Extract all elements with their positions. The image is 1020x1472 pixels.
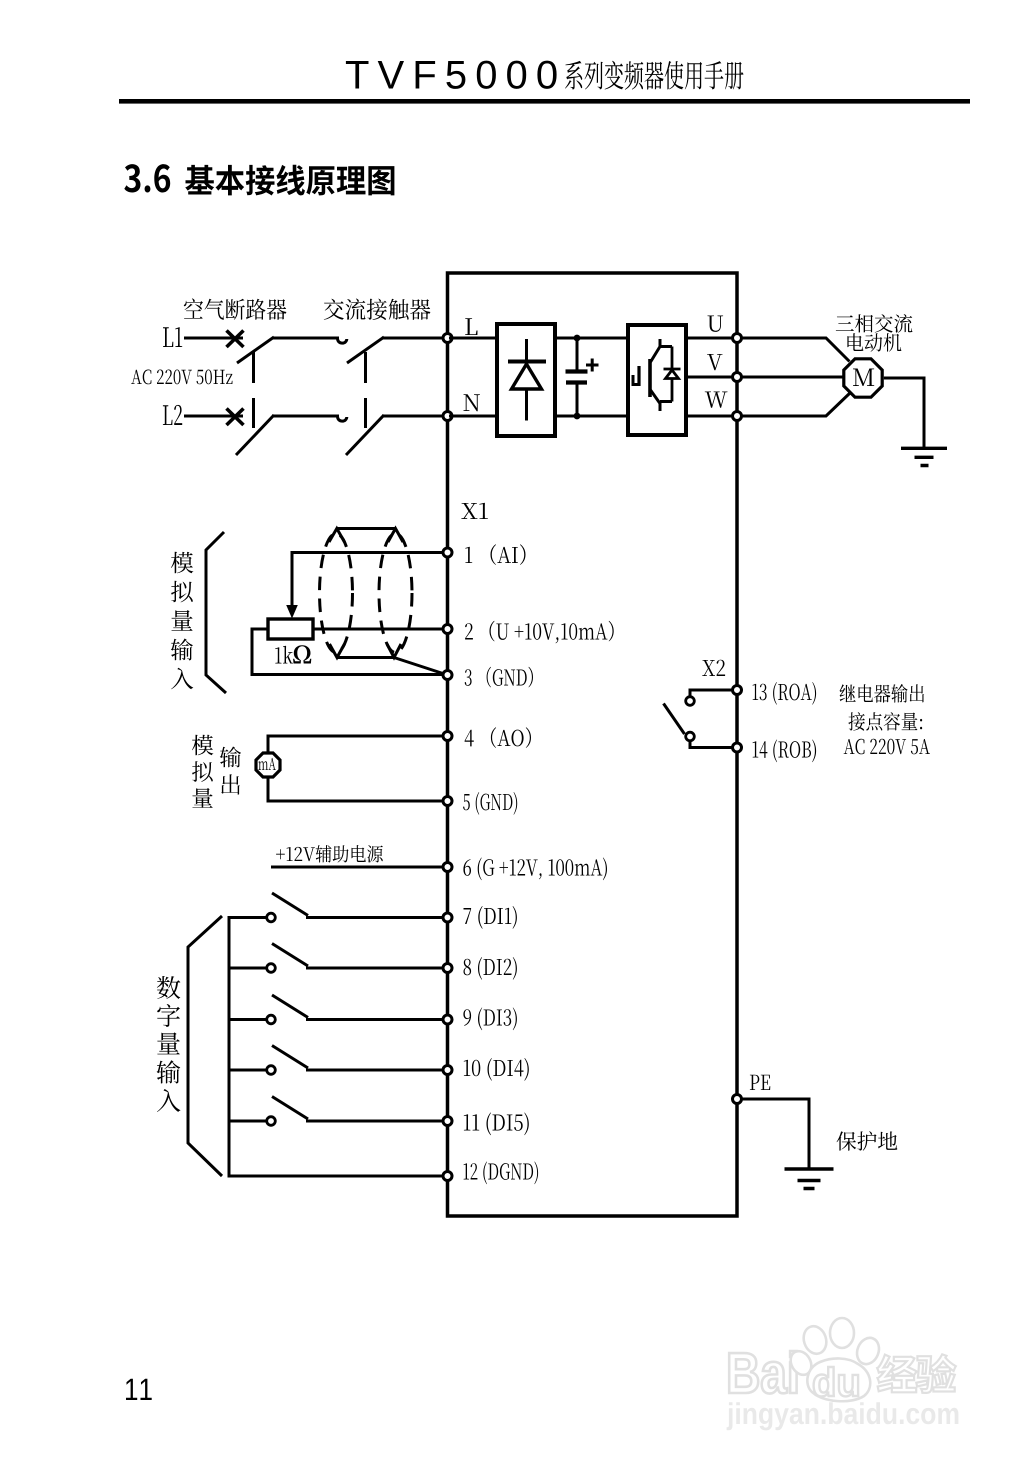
label X2 xyxy=(702,660,725,676)
contactor KM pole2 fixed contact arc xyxy=(338,417,347,421)
terminal 9 label xyxy=(463,1008,517,1031)
label AC 220V 5A xyxy=(844,739,930,755)
IGBT inverter box xyxy=(628,325,686,435)
switch DI2 wire from bus xyxy=(229,967,267,970)
label moniliang shuru (analog input) vertical xyxy=(171,552,194,690)
wire terminal 14 ROB xyxy=(690,741,733,748)
wire terminal 6 +12V xyxy=(271,866,443,869)
terminal 5 label xyxy=(463,792,517,815)
watermark jingyan.baidu.com xyxy=(727,1402,959,1430)
switch DI1 wire from bus xyxy=(229,916,267,919)
terminal 13 circle xyxy=(733,686,742,695)
label L1 xyxy=(163,327,182,347)
terminal 7 label xyxy=(464,906,517,929)
wire DC bus bottom xyxy=(555,415,628,418)
capacitor C1 bottom lead xyxy=(576,382,579,416)
wire DC bus top xyxy=(555,337,628,340)
wire to terminal 9 xyxy=(306,1018,443,1021)
terminal L circle xyxy=(443,334,452,343)
wire terminal 4 AO xyxy=(268,736,443,753)
wire U to motor xyxy=(742,338,850,362)
switch DI4 contact circle xyxy=(267,1066,276,1075)
breaker QF pole1 contact X xyxy=(227,331,244,348)
terminal 11 circle xyxy=(443,1117,452,1126)
switch DI2 blade xyxy=(272,944,308,967)
breaker QF pole2 blade xyxy=(236,415,274,455)
terminal U circle xyxy=(733,334,742,343)
rectifier diode triangle xyxy=(512,364,542,389)
capacitor C1 plate bottom xyxy=(566,380,587,384)
section heading chinese xyxy=(185,165,394,196)
switch DI1 contact circle xyxy=(267,913,276,922)
page number 11 xyxy=(126,1379,152,1400)
rectifier bridge box xyxy=(497,324,555,436)
wire N to rectifier xyxy=(449,415,497,418)
wire L2 input xyxy=(184,415,243,418)
breaker linkage lower xyxy=(252,398,255,428)
wire terminal 1 AI xyxy=(292,553,443,607)
capacitor C1 plate top xyxy=(566,369,588,373)
capacitor plus sign xyxy=(586,359,599,372)
terminal 3 label xyxy=(465,667,533,688)
motor ground symbol xyxy=(901,448,947,465)
contactor KM pole1 fixed contact arc xyxy=(338,339,347,343)
wire to terminal 10 xyxy=(306,1069,443,1072)
contactor KM pole1 blade xyxy=(347,337,384,363)
contactor KM pole2 blade xyxy=(346,415,384,455)
label contact rating xyxy=(848,712,922,731)
label shuchu (output) vertical xyxy=(220,747,241,795)
terminal 12 label xyxy=(464,1162,538,1185)
terminal 7 circle xyxy=(443,913,452,922)
switch DI5 contact circle xyxy=(267,1117,276,1126)
rectifier diode cathode bar xyxy=(508,360,546,364)
watermark du text xyxy=(814,1367,859,1396)
analog input bracket xyxy=(206,532,226,693)
label L2 xyxy=(163,405,182,425)
switch DI5 blade xyxy=(272,1097,308,1120)
terminal 2 circle xyxy=(443,625,452,634)
relay contact lower circle xyxy=(686,732,695,741)
wire terminal 13 ROA xyxy=(690,690,733,696)
label L xyxy=(465,318,477,335)
wire L1 to terminal L xyxy=(382,337,443,340)
label diandongji (motor) xyxy=(847,333,901,352)
label U xyxy=(708,316,724,332)
potentiometer 1k body xyxy=(268,619,313,639)
breaker QF pole1 blade xyxy=(237,337,274,363)
switch DI3 contact circle xyxy=(267,1015,276,1024)
IGBT gate bar xyxy=(637,366,640,386)
wire to terminal 7 xyxy=(306,916,443,919)
wire to terminal 8 xyxy=(306,967,443,970)
terminal V circle xyxy=(733,373,742,382)
label V xyxy=(707,354,722,370)
label AC 220V 50Hz xyxy=(131,370,232,385)
terminal 3 circle xyxy=(443,671,452,680)
terminal 11 label xyxy=(464,1113,529,1136)
terminal 14 circle xyxy=(733,743,742,752)
label sanxiang jiaoliu (3-phase AC) xyxy=(836,314,913,333)
potentiometer wiper arrow xyxy=(286,605,298,619)
contactor linkage upper xyxy=(364,352,367,383)
switch DI3 blade xyxy=(272,995,308,1018)
label PE xyxy=(750,1075,770,1090)
motor M circle xyxy=(844,359,882,397)
watermark paw toes xyxy=(787,1318,883,1401)
wire mA meter to terminal 5 xyxy=(268,778,443,802)
label 1k xyxy=(275,646,293,664)
wire L1 to contactor xyxy=(272,337,339,340)
PE ground symbol xyxy=(785,1169,834,1189)
terminal 4 label xyxy=(465,727,531,748)
terminal 1 circle xyxy=(443,548,452,557)
terminal N circle xyxy=(443,412,452,421)
wire W out xyxy=(686,415,733,418)
IGBT emitter xyxy=(651,390,673,411)
label W xyxy=(705,392,728,408)
header rule xyxy=(119,99,970,104)
terminal 5 circle xyxy=(443,797,452,806)
switch DI1 blade xyxy=(272,893,308,916)
wire to terminal 11 xyxy=(306,1120,443,1123)
IGBT freewheel diode xyxy=(664,347,681,402)
header title chinese xyxy=(565,61,744,90)
switch DI3 wire from bus xyxy=(229,1018,267,1021)
terminal 14 label xyxy=(753,740,817,763)
shield ellipse left xyxy=(320,534,353,653)
switch DI5 wire from bus xyxy=(229,1120,267,1123)
terminal 9 circle xyxy=(443,1015,452,1024)
label relay output xyxy=(840,684,925,703)
label ohm symbol xyxy=(293,645,311,663)
terminal 8 label xyxy=(464,957,517,980)
contactor linkage lower xyxy=(364,398,367,428)
wire U out xyxy=(686,337,733,340)
wire W to motor xyxy=(742,393,851,417)
label mA xyxy=(258,758,276,770)
motor letter M xyxy=(853,369,874,387)
label baohudi (protective earth) xyxy=(837,1131,898,1151)
digital input bracket xyxy=(188,916,222,1176)
watermark jingyan chinese xyxy=(877,1354,956,1393)
terminal W circle xyxy=(733,412,742,421)
terminal 12 circle xyxy=(443,1172,452,1181)
label jiaoliu jiechuqi (AC contactor) xyxy=(324,299,431,320)
shield top carets and jacket line xyxy=(329,529,403,543)
IGBT main bar xyxy=(648,359,652,397)
terminal 10 label xyxy=(464,1058,529,1081)
terminal 4 circle xyxy=(443,732,452,741)
terminal 6 label xyxy=(463,858,607,881)
watermark Baidu text xyxy=(729,1351,796,1394)
capacitor C1 top lead xyxy=(576,338,579,371)
junction dot bus top xyxy=(574,335,581,342)
wire L to rectifier xyxy=(449,337,497,340)
shield ellipse right xyxy=(379,534,412,653)
relay blade xyxy=(664,704,685,735)
terminal 8 circle xyxy=(443,964,452,973)
label shuziliang shuru (digital input) vertical xyxy=(157,976,181,1112)
wire V out xyxy=(686,376,733,379)
mA meter circle xyxy=(256,753,280,777)
breaker linkage upper xyxy=(252,352,255,383)
wire terminal 2 from potentiometer xyxy=(313,628,443,631)
IGBT collector lead xyxy=(651,339,673,362)
terminal 2 label xyxy=(465,621,614,644)
wire L1 input xyxy=(184,337,243,340)
terminal 6 circle xyxy=(443,863,452,872)
breaker QF pole2 contact X xyxy=(227,409,244,426)
shield drain wire to terminal 3 xyxy=(330,644,447,675)
junction dot bus bottom xyxy=(574,413,581,420)
rectifier diode anode lead xyxy=(525,389,528,421)
inverter main box xyxy=(448,273,738,1216)
wire L2 to terminal N xyxy=(382,415,443,418)
terminal PE circle xyxy=(733,1095,742,1104)
switch DI4 blade xyxy=(272,1046,308,1069)
label X1 xyxy=(461,503,488,519)
label +12V auxiliary supply xyxy=(276,845,383,863)
wire L2 to contactor xyxy=(272,415,339,418)
terminal 1 label xyxy=(465,544,525,565)
header title TVF5000 xyxy=(346,61,557,89)
wire potentiometer left to terminal 3 xyxy=(252,629,443,675)
switch DI4 wire from bus xyxy=(229,1069,267,1072)
IGBT gate lead xyxy=(633,375,640,385)
wire motor to ground xyxy=(884,378,924,447)
wire V to motor xyxy=(742,376,844,379)
terminal 10 circle xyxy=(443,1066,452,1075)
wire terminal 12 DGND xyxy=(229,1175,443,1178)
label N xyxy=(464,394,480,411)
label moniliang (analog) vertical xyxy=(192,735,214,808)
label kongqi duanluqi (air breaker) xyxy=(184,298,287,320)
section heading 3.6 xyxy=(124,164,170,192)
rectifier diode cathode lead xyxy=(525,339,528,362)
relay contact upper circle xyxy=(686,697,695,706)
digital input bus xyxy=(228,916,231,1178)
switch DI2 contact circle xyxy=(267,964,276,973)
wire PE to ground xyxy=(742,1099,810,1168)
terminal 13 label xyxy=(753,682,817,705)
